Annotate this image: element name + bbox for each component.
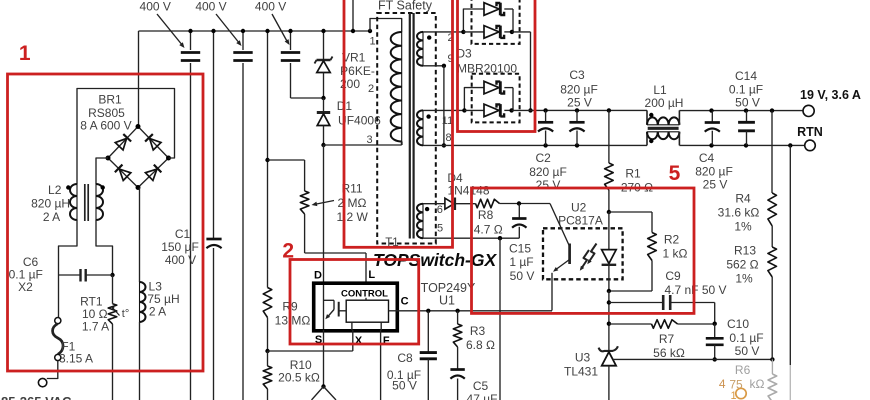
- label pin 11: [442, 115, 453, 127]
- annotation red box 1: [8, 74, 204, 371]
- svg-text:X2: X2: [18, 280, 33, 294]
- wire RTN sense line: [789, 145, 791, 400]
- diode D3 upper pair inline diode: [461, 26, 514, 39]
- diode D1 (UF4006): [317, 98, 330, 145]
- svg-text:200 µH: 200 µH: [645, 96, 684, 110]
- terminal RTN: [805, 140, 816, 151]
- wire F pin down: [380, 330, 382, 400]
- label D4 1N4148: [447, 171, 490, 198]
- wire bus to R9/X sense chain: [265, 29, 269, 288]
- label pin D: [314, 270, 322, 282]
- svg-text:PC817A: PC817A: [558, 214, 603, 228]
- label VR1 P6KE-200: [340, 51, 375, 92]
- wire C pin line: [397, 309, 552, 313]
- diode D3 lower pair loop diode: [464, 81, 513, 110]
- inductor L2 common-mode choke: [66, 184, 105, 221]
- capacitor 400V snubber #3: [281, 29, 324, 98]
- diode VR1 (P6KE-200 zener clamp): [315, 29, 333, 98]
- svg-text:C1: C1: [175, 227, 191, 241]
- IC U1 TOPSwitch control block: [314, 283, 398, 331]
- transformer T1 core: [410, 13, 414, 239]
- svg-text:BR1: BR1: [98, 93, 122, 107]
- node LED anode: [607, 210, 611, 214]
- transformer secondary winding B (pins 11-8): [417, 110, 431, 145]
- capacitor 400V bulk #2: [233, 29, 252, 400]
- label pin 2 (primary tap): [368, 83, 374, 95]
- svg-text:20.5 kΩ: 20.5 kΩ: [278, 371, 320, 385]
- svg-text:RTN: RTN: [797, 125, 823, 139]
- label t°: [122, 308, 129, 320]
- terminal AC input: [38, 378, 46, 386]
- label pin F: [383, 335, 390, 347]
- svg-text:6: 6: [437, 204, 443, 216]
- svg-text:85-265 VAC: 85-265 VAC: [1, 394, 72, 400]
- label T1: [385, 237, 398, 249]
- capacitor C1 bulk line: [206, 29, 221, 400]
- svg-text:50 V: 50 V: [392, 379, 417, 393]
- diode BR1 upper-right: [145, 134, 161, 150]
- annotation red box around T1: [344, 0, 453, 247]
- annotation number 2: [282, 240, 294, 263]
- wire AC line 1 loop to bridge: [77, 89, 175, 185]
- label R10 20.5 kΩ: [278, 358, 320, 385]
- svg-text:6.8 Ω: 6.8 Ω: [466, 338, 495, 352]
- svg-text:MBR20100: MBR20100: [457, 62, 517, 76]
- node clamp/cap3 junction: [321, 96, 325, 100]
- svg-text:31.6 kΩ: 31.6 kΩ: [718, 206, 760, 220]
- thermistor RT1: [108, 275, 119, 400]
- label R2 1 kΩ: [663, 233, 688, 261]
- label pin X: [355, 335, 363, 347]
- capacitor C4: [705, 111, 720, 146]
- wire pin 6 to D4: [423, 203, 445, 205]
- svg-text:400 V: 400 V: [195, 0, 226, 14]
- label F1 3.15 A: [59, 340, 93, 366]
- label C14 0.1 µF 50 V: [729, 69, 763, 110]
- fuse F1: [53, 318, 64, 361]
- label FT Safety (cropped): [378, 0, 433, 13]
- svg-text:1.7 A: 1.7 A: [82, 320, 109, 334]
- label D3 MBR20100: [456, 47, 517, 76]
- svg-text:U1: U1: [439, 294, 455, 308]
- svg-text:C15: C15: [509, 242, 531, 256]
- svg-text:0.1 µF: 0.1 µF: [729, 331, 763, 345]
- capacitor C6: [59, 269, 113, 282]
- svg-text:R6: R6: [735, 363, 751, 377]
- svg-text:VR1: VR1: [342, 51, 366, 65]
- label C15 1 µF 50 V: [509, 242, 534, 284]
- svg-text:8: 8: [445, 132, 451, 144]
- label pin 6: [437, 204, 443, 216]
- svg-text:820 µF: 820 µF: [529, 165, 567, 179]
- label pin 9: [447, 53, 453, 65]
- svg-text:47 µF: 47 µF: [467, 392, 498, 400]
- resistor R3: [453, 311, 462, 370]
- svg-text:1%: 1%: [734, 220, 752, 234]
- label R1 270 Ω: [621, 167, 653, 195]
- svg-text:FT Safety: FT Safety: [378, 0, 433, 13]
- label 19 V, 3.6 A: [800, 88, 861, 102]
- svg-text:C5: C5: [473, 379, 489, 393]
- capacitor 400V bulk #1: [181, 29, 200, 400]
- svg-text:C14: C14: [735, 69, 757, 83]
- wire X pin to R9/R10 node: [268, 330, 353, 351]
- resistor R6 (faded): [768, 359, 777, 400]
- label 400 V (cap 2) with arrow: [195, 0, 243, 47]
- wire pin 9 down to pin 8 net: [423, 64, 446, 148]
- svg-text:820 µF: 820 µF: [695, 165, 733, 179]
- capacitor C2: [538, 110, 553, 145]
- label pin C: [401, 296, 409, 308]
- annotation number 5: [669, 162, 681, 185]
- svg-text:400 V: 400 V: [140, 0, 171, 14]
- svg-text:1: 1: [19, 42, 31, 65]
- svg-text:R8: R8: [478, 208, 494, 222]
- label R7 56 kΩ: [653, 332, 685, 360]
- label U3 TL431: [564, 351, 598, 379]
- wire pin3 to primary: [324, 144, 402, 146]
- resistor R4: [768, 193, 777, 247]
- svg-text:562 Ω: 562 Ω: [726, 258, 758, 272]
- svg-text:R13: R13: [734, 244, 756, 258]
- label C3 820 µF 25 V: [560, 68, 598, 110]
- svg-text:C4: C4: [699, 151, 715, 165]
- label C2 820 µF 25 V: [529, 151, 567, 192]
- transformer secondary winding A (pins 2-9): [417, 32, 431, 66]
- wire bus to bridge + vertex: [138, 31, 140, 127]
- label TOPSwitch-GX: [373, 250, 497, 270]
- svg-text:C3: C3: [569, 68, 585, 82]
- node drain/pin3 junction: [321, 143, 325, 147]
- svg-text:2 A: 2 A: [149, 305, 166, 319]
- label L1 200 µH: [645, 83, 684, 110]
- resistor R9: [263, 288, 272, 318]
- label R11 2 MΩ 1.2 W with arrow: [311, 182, 369, 225]
- diode D3 lower pair dashed box: [472, 74, 520, 123]
- wire RTN rail right: [679, 143, 804, 147]
- label pin S: [315, 334, 322, 346]
- label TOP249Y U1: [421, 281, 476, 308]
- svg-text:CONTROL: CONTROL: [341, 289, 388, 300]
- optocoupler U2 dashed box: [543, 228, 623, 279]
- capacitor C10: [706, 324, 724, 362]
- svg-text:4.7 Ω: 4.7 Ω: [474, 223, 503, 237]
- svg-text:D: D: [314, 270, 322, 282]
- svg-text:4.7 nF 50 V: 4.7 nF 50 V: [664, 283, 726, 297]
- svg-text:2 MΩ: 2 MΩ: [338, 196, 367, 210]
- wire Y-cap / safety to top (cropped): [351, 0, 355, 33]
- svg-text:C10: C10: [727, 317, 749, 331]
- optocoupler light arrows: [578, 244, 596, 272]
- svg-text:1.2 W: 1.2 W: [337, 210, 369, 224]
- wire L2 right to C6/RT1: [96, 220, 115, 277]
- svg-text:400 V: 400 V: [165, 253, 196, 267]
- label R3 6.8 Ω: [466, 324, 495, 352]
- svg-text:4: 4: [719, 377, 726, 391]
- wire L2 left to C6/F1: [59, 220, 78, 317]
- wire TL431 reference line: [613, 357, 775, 361]
- label 85-265 VAC (cropped): [1, 394, 72, 400]
- resistor R13: [768, 247, 777, 359]
- capacitor C5: [450, 370, 464, 400]
- label pin 8: [445, 132, 451, 144]
- svg-text:820 µF: 820 µF: [560, 83, 598, 97]
- svg-text:400 V: 400 V: [255, 0, 286, 14]
- capacitor C3: [569, 110, 584, 145]
- label BR1 RS805 8 A 600 V: [80, 93, 131, 133]
- annotation number 1: [19, 42, 31, 65]
- wire LED cathode to TL431: [607, 291, 611, 350]
- svg-text:3: 3: [366, 134, 372, 146]
- label RTN: [797, 125, 823, 139]
- transformer T1 primary winding: [391, 32, 402, 145]
- svg-text:U3: U3: [575, 351, 591, 365]
- wire output rail right: [679, 108, 803, 112]
- svg-text:50 V: 50 V: [735, 344, 760, 358]
- svg-text:5: 5: [437, 223, 443, 235]
- svg-text:t°: t°: [122, 308, 129, 320]
- label C10 0.1 µF 50 V: [727, 317, 764, 358]
- wire primary DC bus (top rail): [139, 30, 371, 32]
- wire pin 2 to D3 upper pair: [423, 31, 463, 33]
- label pin 2 (secondary): [447, 32, 453, 44]
- wire drain (pin3 to D pin): [323, 145, 325, 282]
- svg-text:5: 5: [669, 162, 681, 185]
- svg-text:R4: R4: [735, 192, 751, 206]
- svg-text:56 kΩ: 56 kΩ: [653, 346, 685, 360]
- wire pin 5 return: [423, 236, 519, 240]
- resistor R10: [263, 351, 272, 400]
- svg-text:L2: L2: [48, 183, 62, 197]
- label C1 150 µF 400 V: [161, 227, 199, 267]
- svg-text:C2: C2: [536, 151, 552, 165]
- svg-text:2: 2: [368, 83, 374, 95]
- capacitor C14: [738, 111, 755, 146]
- annotation red box 5: [472, 188, 695, 313]
- svg-text:150 µF: 150 µF: [161, 240, 199, 254]
- diode D3 lower pair inline diode: [462, 104, 514, 117]
- label C5 47 µF: [467, 379, 498, 400]
- resistor R11: [300, 191, 309, 214]
- svg-text:R2: R2: [664, 233, 680, 247]
- svg-text:1 µF: 1 µF: [509, 255, 533, 269]
- diode D4 1N4148: [445, 198, 476, 211]
- svg-text:R7: R7: [659, 332, 675, 346]
- label C6 0.1 µF X2: [9, 255, 43, 294]
- wire pin 11 to D3 lower pair: [423, 109, 464, 111]
- label 400 V (cap 1) with arrow: [140, 0, 187, 49]
- wire D3 upper output down: [512, 32, 533, 113]
- transistor U2 phototransistor: [519, 204, 570, 311]
- annotation red box 2: [290, 260, 419, 345]
- svg-text:8 A 600 V: 8 A 600 V: [80, 119, 131, 133]
- label R8 4.7 Ω: [474, 208, 503, 237]
- label R4 31.6 kΩ 1%: [718, 192, 760, 234]
- diode BR1 lower-left: [115, 165, 131, 181]
- resistor R8: [476, 199, 522, 208]
- resistor R2: [607, 212, 657, 293]
- label C4 820 µF 25 V: [695, 151, 733, 192]
- diode BR1 lower-right: [145, 165, 161, 181]
- wire secondary ground rail: [423, 143, 647, 147]
- label L3 75 µH 2 A: [147, 280, 179, 319]
- transformer bias winding (pins 6-5): [417, 204, 429, 239]
- svg-text:C8: C8: [397, 351, 413, 365]
- label U2 PC817A: [558, 201, 603, 228]
- terminal 19V output: [803, 105, 814, 116]
- svg-text:R1: R1: [625, 167, 641, 181]
- label 400 V (cap 3) with arrow: [255, 0, 292, 46]
- resistor R1: [605, 110, 614, 212]
- label R6 4.75 kΩ 1% (faded): [719, 363, 765, 400]
- svg-text:50 V: 50 V: [510, 269, 535, 283]
- svg-text:C: C: [401, 296, 409, 308]
- IC U3 TL431: [599, 346, 618, 400]
- svg-text:L1: L1: [653, 83, 667, 97]
- label RT1 10 Ω 1.7 A: [80, 295, 109, 334]
- svg-text:C9: C9: [665, 269, 681, 283]
- label R13 562 Ω 1%: [726, 244, 758, 286]
- wire bias return down: [499, 238, 501, 400]
- capacitor C15: [512, 204, 526, 239]
- inductor L1 output choke: [647, 110, 679, 145]
- wire AC line 2 to bridge: [96, 158, 108, 184]
- label pin 5: [437, 223, 443, 235]
- wire R9 to X node: [265, 318, 269, 354]
- svg-text:1%: 1%: [735, 272, 753, 286]
- capacitor C8: [420, 311, 437, 400]
- annotation red box around D3: [458, 0, 536, 132]
- svg-text:kΩ: kΩ: [750, 377, 765, 391]
- wire secondary output rail: [512, 108, 647, 112]
- svg-text:25 V: 25 V: [703, 178, 728, 192]
- label D1 UF4006: [337, 99, 381, 128]
- label C8 0.1 µF 50 V: [387, 351, 421, 393]
- wire R11 tap: [268, 160, 305, 191]
- wire F1 to AC terminal: [47, 361, 58, 379]
- svg-text:0.1 µF: 0.1 µF: [729, 83, 763, 97]
- resistor R7: [609, 320, 717, 329]
- svg-text:3.15 A: 3.15 A: [59, 352, 93, 366]
- capacitor C9: [609, 295, 715, 324]
- label L2 820 µH 2 A: [31, 183, 70, 224]
- svg-text:R3: R3: [470, 324, 486, 338]
- rectifier BR1 bridge: [106, 124, 172, 190]
- wire R11 to L pin: [305, 214, 366, 283]
- diode D3 upper pair dashed box: [472, 0, 520, 44]
- svg-text:U2: U2: [571, 201, 587, 215]
- diode D3 upper pair loop diode: [463, 3, 513, 32]
- label C9 4.7 nF 50 V: [664, 269, 726, 297]
- svg-text:50 V: 50 V: [735, 96, 760, 110]
- svg-text:820 µH: 820 µH: [31, 197, 70, 211]
- label pin L: [368, 269, 375, 281]
- svg-text:2: 2: [282, 240, 294, 263]
- diode U2 LED: [602, 212, 617, 291]
- wire pin1 detour to primary top: [368, 19, 402, 34]
- svg-text:1 kΩ: 1 kΩ: [663, 247, 688, 261]
- svg-text:1: 1: [730, 390, 736, 400]
- svg-text:TL431: TL431: [564, 365, 598, 379]
- diode BR1 upper-left: [115, 134, 131, 150]
- svg-text:1: 1: [369, 36, 375, 48]
- svg-text:13 MΩ: 13 MΩ: [275, 314, 311, 328]
- wire S pin down: [312, 330, 337, 400]
- svg-text:2 A: 2 A: [43, 210, 60, 224]
- label pin 1: [369, 36, 375, 48]
- inductor L3: [140, 188, 146, 400]
- svg-text:19 V, 3.6 A: 19 V, 3.6 A: [800, 88, 861, 102]
- label CONTROL: [341, 289, 388, 300]
- transformer T1 safety dashed box: [377, 13, 436, 244]
- svg-text:25 V: 25 V: [536, 178, 561, 192]
- label pin 3: [366, 134, 372, 146]
- label R9 13 MΩ: [275, 300, 311, 328]
- svg-text:25 V: 25 V: [567, 96, 592, 110]
- svg-text:L: L: [368, 269, 375, 281]
- wire 19V rail to R4 divider: [771, 111, 773, 193]
